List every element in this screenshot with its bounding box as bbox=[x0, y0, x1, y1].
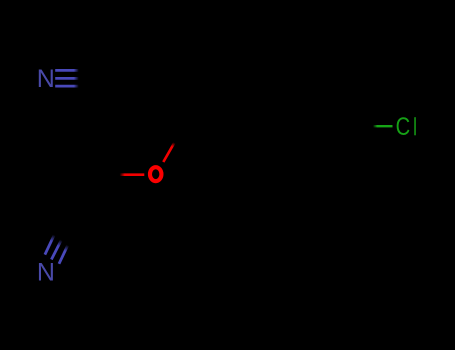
svg-text:N: N bbox=[37, 259, 55, 287]
nitrile 2 triple bond (N#C, diagonal ~64deg, three lines) bbox=[45, 235, 68, 264]
nitrile 1 triple bond (N#C, horizontal, three lines) bbox=[55, 70, 78, 86]
svg-text:C: C bbox=[396, 113, 411, 141]
svg-text:N: N bbox=[37, 65, 55, 93]
wire: triple bond line 1 bbox=[45, 235, 54, 254]
wire: triple bond line 2 bbox=[51, 240, 61, 259]
wire: triple bond line 3 bbox=[55, 85, 78, 88]
ether oxygen O label bbox=[150, 167, 162, 181]
wire: triple bond line 1 bbox=[55, 69, 78, 72]
wire: C-O bond (diagonal, oxygen half, red) bbox=[163, 143, 174, 162]
wire: C-O bond (horizontal, oxygen half, red) bbox=[120, 173, 145, 176]
wire: triple bond line 3 bbox=[59, 245, 68, 263]
wire: triple bond line 2 bbox=[55, 77, 78, 80]
wire: C-Cl bond (chlorine half, green) bbox=[373, 125, 393, 127]
